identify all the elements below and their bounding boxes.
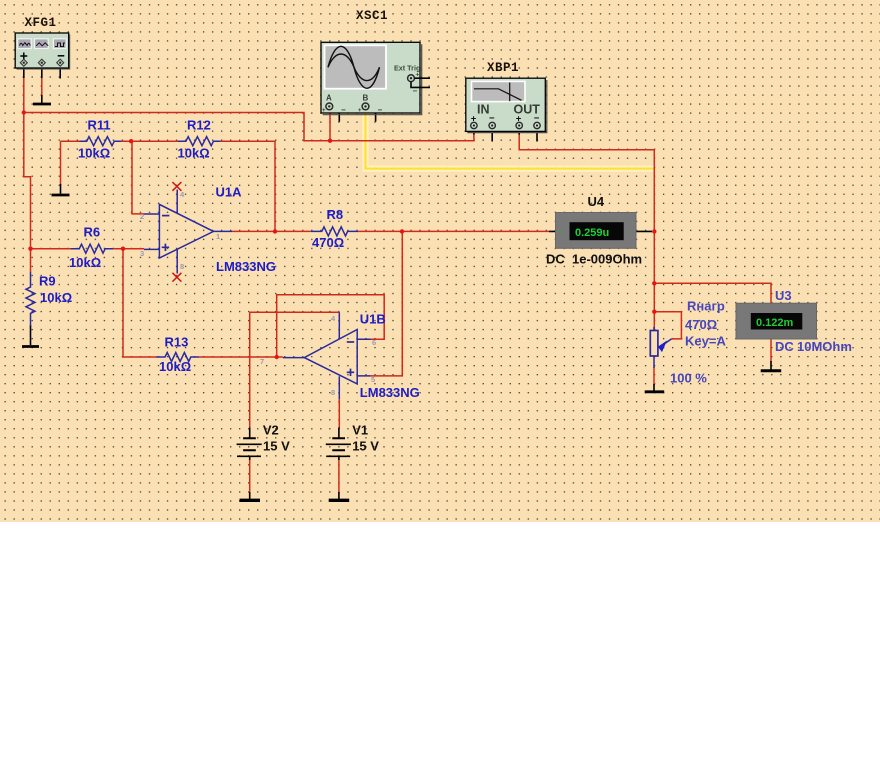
svg-text:10kΩ: 10kΩ: [78, 146, 110, 161]
svg-text:IN: IN: [477, 103, 490, 117]
svg-text:0.259u: 0.259u: [575, 227, 609, 239]
svg-text:0.122m: 0.122m: [756, 317, 794, 329]
svg-text:470Ω: 470Ω: [685, 317, 717, 332]
svg-text:10kΩ: 10kΩ: [69, 255, 101, 270]
svg-text:DC10MOhm: DC10MOhm: [775, 339, 852, 354]
svg-text:Key=A: Key=A: [685, 334, 726, 349]
svg-text:U4: U4: [588, 194, 605, 209]
svg-text:R13: R13: [165, 335, 189, 350]
svg-text:B: B: [363, 94, 369, 103]
svg-text:+: +: [322, 108, 326, 114]
svg-text:15 V: 15 V: [263, 439, 290, 454]
svg-text:A: A: [326, 94, 332, 103]
svg-text:10kΩ: 10kΩ: [40, 290, 72, 305]
svg-text:R9: R9: [39, 274, 56, 289]
svg-text:8: 8: [331, 388, 335, 397]
svg-text:R11: R11: [88, 118, 111, 133]
svg-text:V2: V2: [263, 423, 279, 438]
svg-text:R6: R6: [84, 225, 101, 240]
svg-text:+: +: [559, 227, 564, 237]
svg-text:6: 6: [372, 338, 376, 347]
svg-text:470Ω: 470Ω: [312, 235, 344, 250]
svg-text:U3: U3: [775, 288, 792, 303]
svg-text:10kΩ: 10kΩ: [178, 146, 210, 161]
svg-text:XSC1: XSC1: [356, 9, 388, 23]
svg-text:−: −: [378, 106, 383, 115]
svg-text:−: −: [341, 106, 346, 115]
svg-text:8: 8: [180, 262, 184, 271]
svg-text:3: 3: [140, 249, 144, 258]
svg-text:LM833NG: LM833NG: [216, 259, 276, 274]
svg-text:XBP1: XBP1: [487, 61, 519, 75]
svg-text:−: −: [413, 87, 418, 96]
svg-text:U1A: U1A: [216, 185, 243, 200]
svg-text:−: −: [627, 227, 632, 237]
svg-text:+: +: [358, 108, 362, 114]
svg-text:10kΩ: 10kΩ: [159, 359, 191, 374]
svg-text:R8: R8: [327, 207, 344, 222]
svg-text:1: 1: [216, 232, 220, 241]
svg-text:Rнагр: Rнагр: [687, 299, 725, 314]
svg-text:R12: R12: [187, 118, 211, 133]
svg-text:+: +: [416, 72, 420, 79]
svg-text:V1: V1: [352, 423, 368, 438]
svg-text:7: 7: [260, 357, 264, 366]
svg-text:5: 5: [371, 375, 375, 384]
svg-text:2: 2: [140, 212, 144, 221]
svg-text:DC1e-009Ohm: DC1e-009Ohm: [546, 252, 642, 267]
svg-text:15 V: 15 V: [352, 439, 379, 454]
svg-text:100 %: 100 %: [670, 371, 707, 386]
svg-text:LM833NG: LM833NG: [360, 385, 420, 400]
svg-text:U1B: U1B: [360, 312, 386, 327]
svg-text:XFG1: XFG1: [25, 16, 57, 30]
